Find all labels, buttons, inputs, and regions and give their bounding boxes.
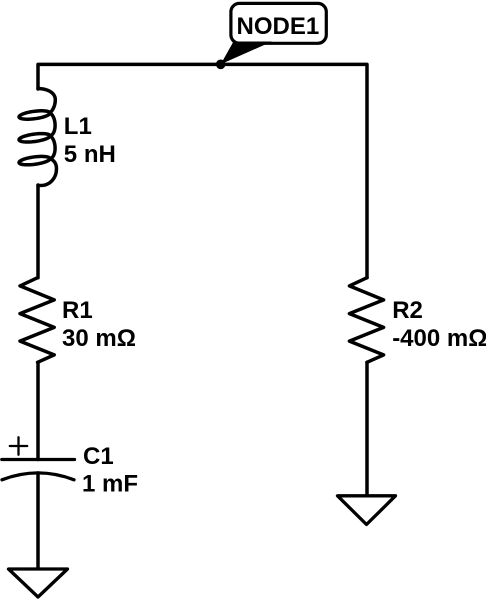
svg-text:R1: R1	[62, 297, 93, 324]
svg-text:R2: R2	[392, 297, 423, 324]
svg-text:C1: C1	[83, 443, 114, 470]
svg-text:-400 mΩ: -400 mΩ	[392, 325, 486, 352]
svg-text:1 mF: 1 mF	[82, 470, 138, 497]
svg-text:NODE1: NODE1	[237, 13, 320, 40]
svg-text:L1: L1	[64, 113, 92, 140]
svg-text:5 nH: 5 nH	[64, 141, 116, 168]
svg-text:30 mΩ: 30 mΩ	[62, 325, 136, 352]
